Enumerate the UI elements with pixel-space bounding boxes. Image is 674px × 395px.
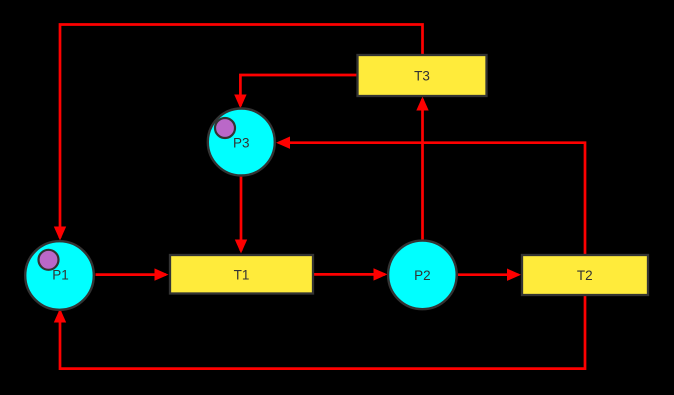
wire arc T1 to P2 xyxy=(314,268,388,280)
svg-text:P1: P1 xyxy=(52,268,69,283)
svg-text:P2: P2 xyxy=(414,268,431,283)
wire arc P1 to T1 xyxy=(96,268,169,280)
transition T1 xyxy=(170,255,313,294)
wire arc T3 to P1 (top loop) xyxy=(54,25,423,241)
svg-text:T3: T3 xyxy=(414,69,430,84)
wire arc T2 to P1 (bottom loop) xyxy=(54,275,585,369)
wire arc P2 to T2 xyxy=(458,269,521,281)
place P1 xyxy=(25,241,94,310)
transition T3 xyxy=(358,55,487,96)
transition T2 xyxy=(522,255,648,295)
token in P1 xyxy=(39,250,59,270)
svg-text:T2: T2 xyxy=(577,268,593,283)
wire arc P3 to T1 xyxy=(235,176,247,254)
place P3 xyxy=(208,109,275,176)
svg-text:P3: P3 xyxy=(233,136,250,151)
wire arc T3 to P3 xyxy=(234,75,357,109)
wire arc P2 to T3 xyxy=(416,97,428,241)
wire arc T2 to P3 (right vertical + horizontal into P3) xyxy=(276,137,585,276)
place P2 xyxy=(388,241,457,310)
token in P3 xyxy=(215,118,235,138)
svg-text:T1: T1 xyxy=(234,268,250,283)
